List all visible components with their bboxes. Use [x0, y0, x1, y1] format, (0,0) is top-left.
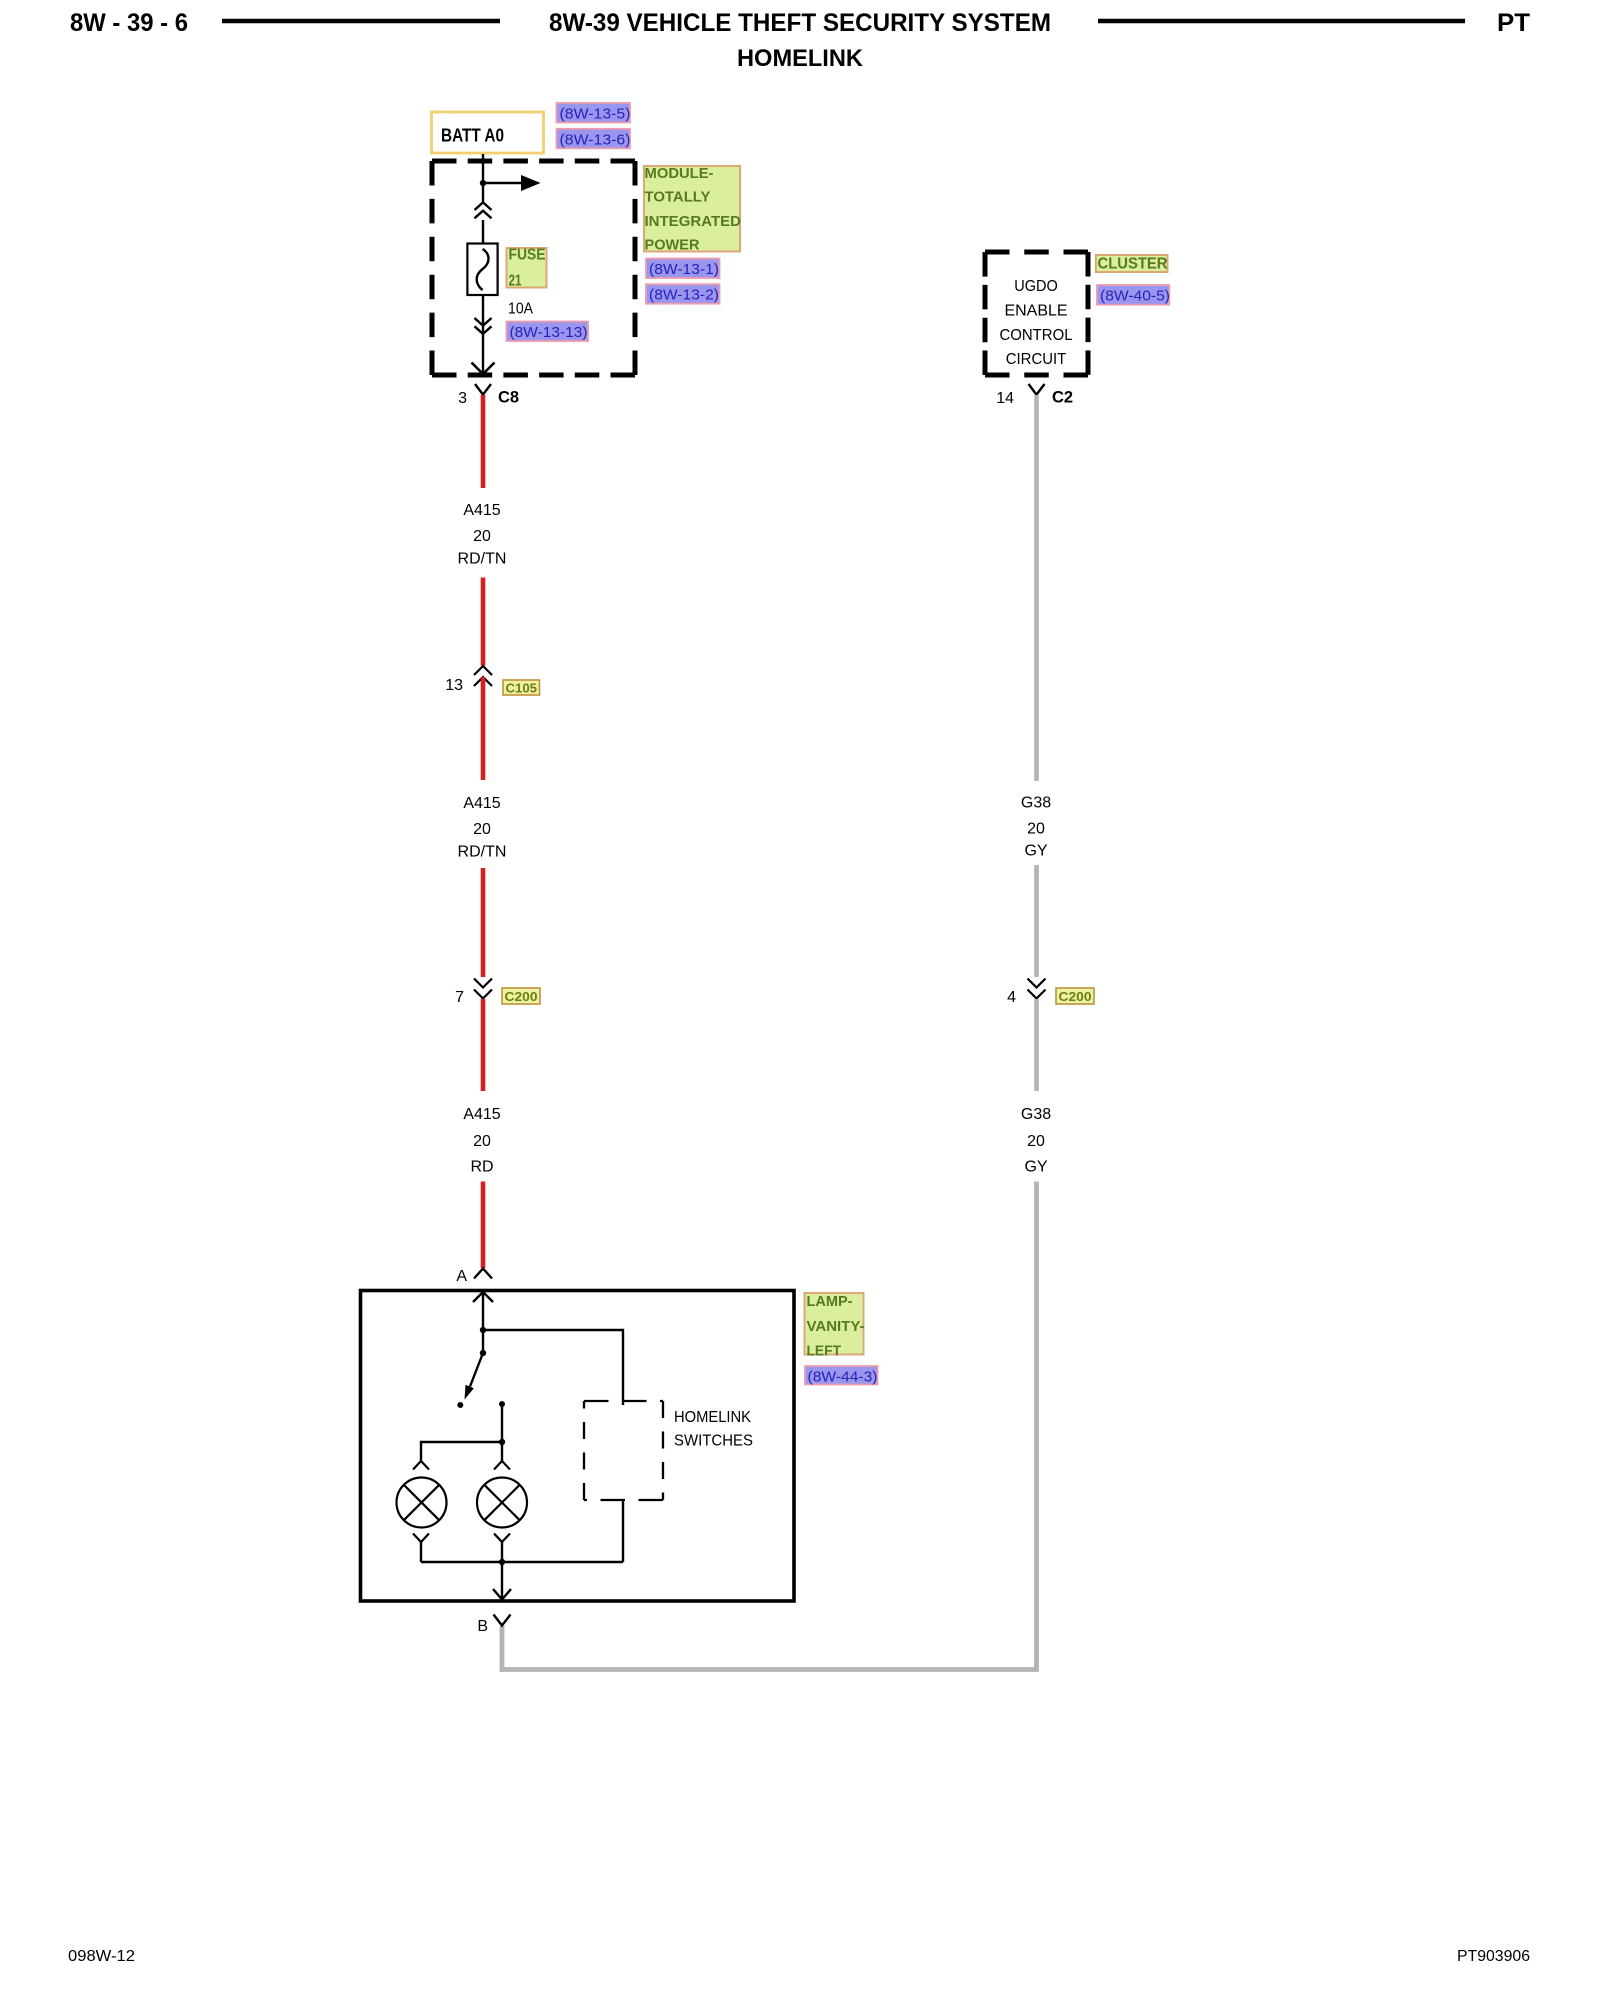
svg-text:LAMP-: LAMP-	[807, 1293, 853, 1310]
svg-text:(8W-13-13): (8W-13-13)	[510, 324, 588, 341]
header rule left	[222, 19, 500, 24]
link (8W-13-5)	[557, 103, 631, 123]
svg-text:GY: GY	[1024, 843, 1047, 860]
svg-text:20: 20	[473, 528, 491, 545]
svg-text:ENABLE: ENABLE	[1005, 303, 1068, 320]
wire A415 segment 5 (red)	[481, 999, 486, 1091]
wire contact to lamp junction	[501, 1404, 503, 1461]
module label MODULE-TOTALLY INTEGRATED POWER	[644, 166, 741, 254]
svg-text:RD/TN: RD/TN	[458, 551, 507, 568]
svg-text:C200: C200	[1059, 989, 1092, 1004]
node junction feed	[480, 1327, 486, 1333]
svg-text:RD: RD	[470, 1159, 493, 1176]
left lamp socket chevron bottom	[413, 1534, 429, 1543]
svg-text:B: B	[477, 1618, 488, 1635]
switch blade with arrowhead	[465, 1353, 484, 1400]
connector C200 pin 4	[1007, 979, 1094, 1007]
right lamp socket chevron top	[494, 1461, 510, 1470]
arrowhead at module exit	[472, 363, 495, 375]
svg-text:(8W-13-5): (8W-13-5)	[560, 106, 631, 123]
wire label A415 20 RD	[463, 1106, 500, 1176]
svg-text:20: 20	[1027, 820, 1045, 837]
link (8W-44-3)	[805, 1366, 878, 1386]
svg-text:20: 20	[473, 821, 491, 838]
label LAMP-VANITY-LEFT	[805, 1293, 865, 1360]
svg-text:20: 20	[473, 1133, 491, 1150]
link (8W-13-13)	[507, 322, 589, 342]
fuse label FUSE 21	[507, 247, 547, 290]
arrow to other circuits	[483, 175, 541, 191]
svg-text:MODULE-: MODULE-	[645, 166, 714, 182]
wire chevrons to fuse	[482, 220, 484, 250]
arrowhead entering lamp box	[473, 1292, 493, 1302]
svg-text:C200: C200	[505, 989, 538, 1004]
svg-text:A: A	[456, 1268, 467, 1285]
wire label A415 20 RD/TN (1)	[458, 502, 507, 568]
svg-text:PT: PT	[1497, 9, 1530, 37]
svg-text:A415: A415	[463, 1106, 500, 1123]
svg-text:(8W-13-1): (8W-13-1)	[649, 261, 719, 278]
connector C200 pin 7	[455, 979, 540, 1007]
wire branch to left lamp	[421, 1442, 502, 1461]
wire fuse to module edge	[482, 295, 484, 373]
module TIPM dashed box	[432, 161, 635, 375]
svg-text:HOMELINK: HOMELINK	[737, 45, 864, 72]
svg-text:RD/TN: RD/TN	[458, 844, 507, 861]
wire label A415 20 RD/TN (2)	[458, 795, 507, 861]
arrowhead leaving lamp box	[493, 1589, 511, 1600]
svg-text:FUSE: FUSE	[509, 247, 546, 264]
node B	[477, 1615, 510, 1636]
lamp left (bulb)	[397, 1478, 447, 1528]
svg-text:21: 21	[509, 273, 522, 290]
svg-text:4: 4	[1007, 989, 1016, 1006]
node lamp junction	[499, 1439, 505, 1445]
cluster dashed box UGDO ENABLE CONTROL CIRCUIT	[985, 252, 1088, 375]
svg-text:CIRCUIT: CIRCUIT	[1006, 351, 1067, 368]
wire G38 segment 4 (gray, down and across to node B)	[502, 1182, 1037, 1670]
wire bus to node B	[501, 1562, 503, 1599]
wire right lamp to bus	[501, 1542, 503, 1562]
svg-text:20: 20	[1027, 1133, 1045, 1150]
svg-text:HOMELINK: HOMELINK	[674, 1409, 751, 1426]
fuse F21	[467, 244, 497, 296]
svg-text:(8W-44-3): (8W-44-3)	[808, 1369, 878, 1386]
node junction in module	[480, 180, 486, 186]
left lamp socket chevron top	[413, 1461, 429, 1470]
link (8W-13-6)	[557, 129, 631, 149]
header rule right	[1098, 19, 1465, 24]
svg-text:CONTROL: CONTROL	[1000, 327, 1073, 344]
link (8W-40-5)	[1097, 285, 1170, 305]
svg-text:G38: G38	[1021, 795, 1051, 812]
switch contact left	[457, 1402, 463, 1408]
svg-text:G38: G38	[1021, 1106, 1051, 1123]
svg-text:SWITCHES: SWITCHES	[674, 1433, 753, 1450]
svg-text:7: 7	[455, 989, 464, 1006]
wire A415 segment 3 (red)	[481, 677, 486, 780]
svg-text:(8W-13-6): (8W-13-6)	[560, 131, 631, 148]
svg-text:UGDO: UGDO	[1014, 278, 1058, 295]
lamp right (bulb)	[477, 1478, 527, 1528]
battery feed box BATT A0	[432, 112, 544, 153]
inline connector chevrons (up pair)	[475, 202, 492, 218]
switch contact right	[499, 1401, 505, 1407]
link (8W-13-2)	[646, 284, 720, 304]
wire battery feed into module	[482, 154, 484, 202]
wire G38 segment 2 (gray)	[1034, 865, 1039, 977]
svg-text:(8W-13-2): (8W-13-2)	[649, 287, 719, 304]
wire A415 segment 6 (red)	[481, 1182, 486, 1269]
svg-text:098W-12: 098W-12	[68, 1948, 135, 1965]
wire A415 segment 4 (red)	[481, 868, 486, 977]
svg-text:13: 13	[445, 677, 463, 694]
node A	[456, 1268, 492, 1285]
wire label G38 20 GY (2)	[1021, 1106, 1051, 1176]
connector C8 pin 3	[458, 384, 519, 407]
svg-text:BATT A0: BATT A0	[441, 126, 504, 146]
wire A415 segment 2 (red)	[481, 578, 486, 666]
svg-text:VANITY-: VANITY-	[807, 1318, 865, 1335]
wire A415 segment 1 (red)	[481, 395, 486, 488]
svg-text:PT903906: PT903906	[1457, 1948, 1530, 1965]
svg-text:14: 14	[996, 390, 1014, 407]
svg-text:3: 3	[458, 390, 467, 407]
right lamp socket chevron bottom	[494, 1534, 510, 1543]
inline connector chevrons (down pair)	[475, 318, 492, 334]
link (8W-13-1)	[646, 259, 720, 279]
connector C105 pin 13	[445, 666, 539, 696]
connector C2 pin 14	[996, 384, 1073, 407]
wire G38 segment 3 (gray)	[1034, 999, 1039, 1091]
svg-text:GY: GY	[1024, 1159, 1047, 1176]
wire homelink switches to bus	[622, 1500, 624, 1562]
wire branch to homelink switches	[483, 1330, 623, 1405]
wire lamp feed vertical	[482, 1292, 484, 1353]
switch pivot node	[480, 1350, 486, 1356]
wire left lamp to bus	[420, 1542, 422, 1562]
wire label G38 20 GY (1)	[1021, 795, 1051, 860]
svg-text:INTEGRATED: INTEGRATED	[645, 214, 742, 230]
svg-text:A415: A415	[463, 502, 500, 519]
svg-text:C2: C2	[1052, 389, 1073, 407]
wire G38 segment 1 (gray)	[1034, 395, 1039, 781]
svg-text:LEFT: LEFT	[807, 1343, 842, 1360]
svg-text:(8W-40-5): (8W-40-5)	[1100, 288, 1170, 305]
svg-text:POWER: POWER	[645, 238, 701, 254]
homelink switches dashed box	[584, 1401, 663, 1500]
svg-text:CLUSTER: CLUSTER	[1098, 255, 1168, 272]
svg-text:C105: C105	[506, 681, 538, 696]
svg-text:8W - 39 - 6: 8W - 39 - 6	[70, 9, 188, 37]
svg-text:C8: C8	[498, 389, 519, 407]
lamp assembly box	[361, 1291, 795, 1602]
homelink switches text	[674, 1409, 753, 1450]
svg-text:8W-39 VEHICLE THEFT SECURITY S: 8W-39 VEHICLE THEFT SECURITY SYSTEM	[549, 9, 1051, 37]
svg-text:10A: 10A	[508, 301, 533, 318]
bus wire	[421, 1561, 623, 1563]
svg-text:TOTALLY: TOTALLY	[645, 190, 711, 206]
node bus junction	[499, 1559, 505, 1565]
label CLUSTER	[1096, 255, 1168, 272]
svg-text:A415: A415	[463, 795, 500, 812]
